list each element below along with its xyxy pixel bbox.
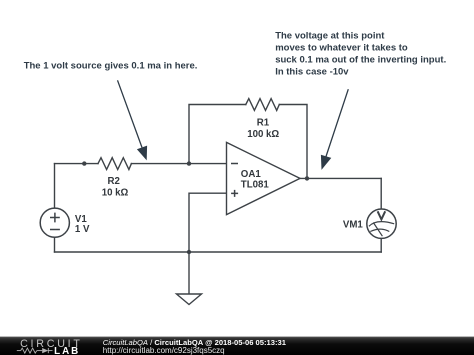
svg-text:R1: R1 — [257, 118, 270, 129]
svg-text:VM1: VM1 — [343, 220, 364, 231]
svg-text:10 kΩ: 10 kΩ — [102, 187, 129, 198]
svg-text:1 V: 1 V — [75, 224, 90, 235]
svg-text:R2: R2 — [108, 176, 120, 187]
svg-text:LAB: LAB — [54, 346, 80, 355]
svg-text:TL081: TL081 — [241, 180, 270, 191]
svg-text:suck 0.1 ma out of the inverti: suck 0.1 ma out of the inverting input. — [275, 54, 446, 65]
svg-text:The 1 volt source gives 0.1 ma: The 1 volt source gives 0.1 ma in here. — [24, 61, 198, 72]
svg-text:http://circuitlab.com/c92sj3fq: http://circuitlab.com/c92sj3fqs5czq — [103, 346, 225, 355]
svg-text:100 kΩ: 100 kΩ — [247, 129, 279, 140]
svg-text:In this case -10v: In this case -10v — [275, 66, 349, 77]
svg-text:The voltage at this point: The voltage at this point — [275, 30, 385, 41]
svg-text:OA1: OA1 — [241, 169, 262, 180]
svg-text:moves to whatever it takes to: moves to whatever it takes to — [275, 42, 408, 53]
